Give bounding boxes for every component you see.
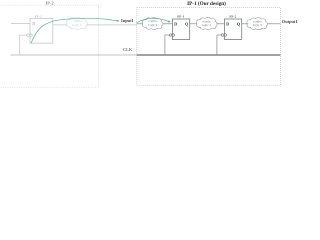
svg-text:D: D	[226, 21, 229, 26]
svg-text:Output1: Output1	[282, 19, 298, 24]
IP-1 dashed border	[137, 8, 281, 86]
clock bubble (FF-2 IP-1)	[221, 34, 223, 36]
green path segment A: IP-2 FF clock to Input1	[31, 18, 117, 43]
green path segment B: Input1 through combo logic 1 to FF-1 D	[137, 18, 169, 23]
wire cloud 3 to Output1 port	[268, 23, 281, 25]
cloud combo logic 1	[142, 18, 163, 30]
clock triangle (IP-2 FF)	[30, 33, 33, 37]
svg-text:CLK: CLK	[123, 47, 133, 52]
svg-text:FF-1: FF-1	[177, 15, 184, 19]
svg-text:Q: Q	[237, 21, 241, 26]
wire clock to bubble (IP-2)	[20, 34, 27, 36]
svg-text:Input1: Input1	[121, 18, 134, 23]
flip-flop FF-2 (IP-2) box	[30, 19, 53, 43]
flip-flop FF-1 box	[173, 19, 190, 40]
CLK rail (IP-1, dark)	[137, 54, 281, 56]
cloud combo logic 4 (faint)	[67, 17, 88, 29]
svg-text:Q: Q	[185, 21, 189, 26]
wire FF-2 Q to cloud 3	[242, 23, 249, 25]
CLK rail (IP-2, faint)	[11, 54, 137, 56]
wire clock to bubble (FF-1)	[165, 34, 170, 36]
flip-flop FF-2 box (IP-1)	[225, 19, 242, 40]
svg-text:logic 2: logic 2	[202, 23, 211, 27]
svg-text:IP-1 (Our design): IP-1 (Our design)	[187, 0, 226, 7]
svg-text:logic 3: logic 3	[253, 23, 262, 27]
wire cloud 2 to FF-2 D	[217, 23, 225, 25]
wire Q output to cloud (IP-2)	[53, 24, 67, 26]
clock triangle (FF-1)	[173, 33, 175, 37]
wire FF-1 Q to cloud 2	[190, 23, 197, 25]
cloud combo logic 2	[196, 18, 217, 30]
wire Input1 to cloud 1	[137, 23, 143, 25]
svg-text:logic 1: logic 1	[148, 23, 157, 27]
clock bubble (FF-1)	[169, 34, 171, 36]
svg-text:D: D	[174, 21, 177, 26]
wire clock vertical (FF-1)	[164, 35, 166, 55]
svg-text:FF-2: FF-2	[35, 15, 42, 19]
wire cloud 1 to FF-1 D	[163, 23, 173, 25]
IP-2 dashed border	[0, 5, 99, 87]
wire cloud 4 to Input1 port	[87, 24, 137, 26]
clock triangle (FF-2 IP-1)	[225, 33, 227, 37]
wire D input stub (IP-2)	[11, 23, 30, 25]
wire clock to bubble (FF-2 IP-1)	[217, 34, 222, 36]
svg-text:D: D	[32, 21, 35, 26]
clock bubble (IP-2 FF)	[27, 34, 30, 37]
cloud combo logic 3	[247, 18, 268, 30]
wire clock vertical (FF-2 IP-1)	[216, 35, 218, 55]
svg-text:logic 4: logic 4	[72, 23, 81, 27]
svg-text:FF-2: FF-2	[229, 15, 236, 19]
wire clock vertical (IP-2)	[19, 35, 21, 55]
